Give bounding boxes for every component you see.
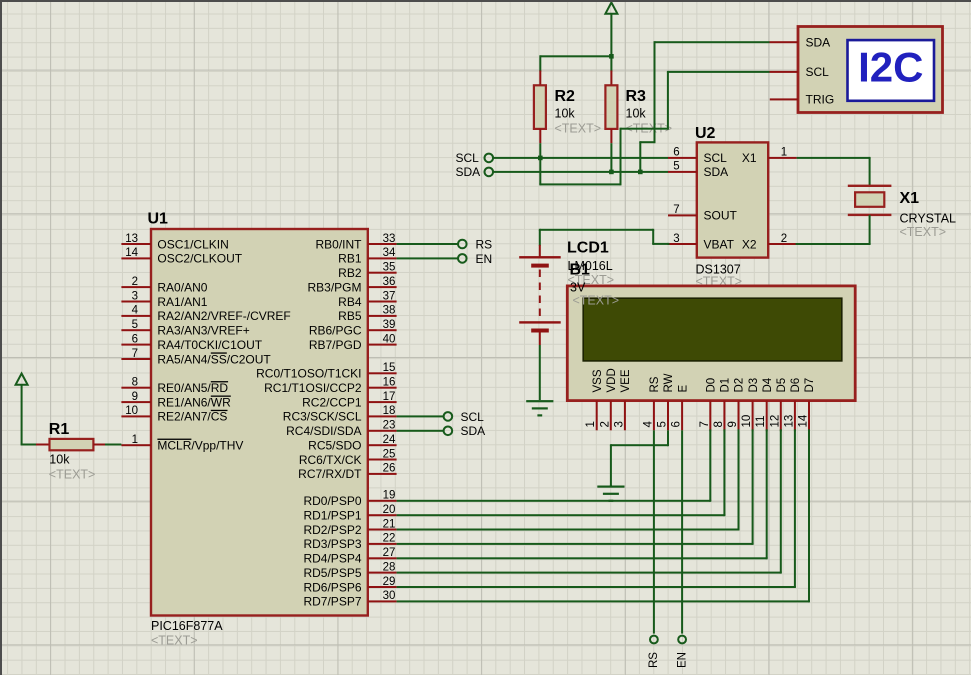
svg-text:RB1: RB1 [338, 252, 362, 266]
svg-text:25: 25 [383, 448, 396, 460]
terminal EN bottom [678, 636, 686, 644]
svg-text:R1: R1 [49, 421, 70, 438]
U1 pin 14 stub [121, 257, 151, 259]
terminal SCL mid [444, 412, 453, 421]
terminal RS [458, 240, 467, 249]
svg-text:<TEXT>: <TEXT> [573, 294, 620, 308]
svg-text:EN: EN [476, 252, 493, 266]
svg-text:RE0/AN5/RD: RE0/AN5/RD [157, 381, 228, 395]
battery B1 dashed link [539, 270, 541, 319]
U1 pin 21 stub [368, 529, 397, 531]
svg-text:RB0/INT: RB0/INT [315, 237, 362, 251]
svg-text:7: 7 [699, 421, 711, 427]
svg-text:3: 3 [613, 421, 625, 427]
U1 pin 33 stub [368, 243, 397, 245]
svg-text:13: 13 [125, 233, 138, 245]
svg-text:12: 12 [769, 415, 781, 428]
U1 pin 24 stub [368, 444, 397, 446]
LCD pin 10 stub [752, 401, 754, 431]
svg-text:SCL: SCL [704, 151, 728, 165]
svg-text:17: 17 [383, 391, 396, 403]
svg-text:RS: RS [476, 237, 493, 251]
svg-text:D1: D1 [720, 378, 732, 393]
battery B1 plate 2 short [531, 264, 549, 268]
svg-text:9: 9 [132, 391, 138, 403]
U1 pin 1 overbar [157, 439, 191, 440]
svg-text:LM016L: LM016L [568, 259, 613, 273]
I2C white display panel [848, 40, 935, 101]
svg-text:5: 5 [657, 421, 669, 427]
svg-text:X1: X1 [900, 190, 920, 207]
wire crystal to U2.X2 [869, 215, 871, 244]
svg-text:10k: 10k [555, 107, 576, 121]
svg-text:I2C: I2C [858, 44, 923, 91]
wire I2C SCL net [668, 71, 770, 73]
U1 pin 16 stub [368, 387, 397, 389]
svg-text:40: 40 [383, 333, 396, 345]
svg-text:PIC16F877A: PIC16F877A [151, 619, 223, 633]
svg-text:<TEXT>: <TEXT> [900, 225, 947, 239]
sheet border top [0, 0, 971, 2]
U1 pin 2 stub [121, 286, 151, 288]
U1 pin 19 stub [368, 500, 397, 502]
U1 pin 34 stub [368, 257, 397, 259]
svg-text:34: 34 [383, 247, 396, 259]
svg-text:10k: 10k [626, 107, 647, 121]
wire RD5 to LCD D5 [397, 572, 781, 574]
svg-text:14: 14 [798, 414, 810, 427]
svg-text:RA1/AN1: RA1/AN1 [157, 295, 207, 309]
U1 pin 38 stub [368, 315, 397, 317]
svg-text:1: 1 [585, 421, 597, 427]
U1 pin 20 stub [368, 514, 397, 516]
battery B1 plate 3 long [519, 321, 561, 323]
svg-text:X1: X1 [742, 151, 757, 165]
svg-text:4: 4 [132, 305, 139, 317]
wire SCL bus [493, 157, 668, 159]
svg-text:D5: D5 [776, 378, 788, 393]
svg-text:20: 20 [383, 504, 396, 516]
svg-text:RC4/SDI/SDA: RC4/SDI/SDA [286, 424, 361, 438]
wire RD2 to LCD D2 [397, 529, 739, 531]
svg-text:22: 22 [383, 533, 396, 545]
terminal SDA mid [444, 427, 453, 436]
wire arrow to R1 [21, 385, 23, 445]
wire battery to U2.VBAT [539, 230, 541, 246]
svg-text:RA2/AN2/VREF-/CVREF: RA2/AN2/VREF-/CVREF [157, 309, 290, 323]
U1 pin 22 stub [368, 543, 397, 545]
terminal SCL [485, 154, 494, 163]
svg-text:23: 23 [383, 420, 396, 432]
svg-text:D0: D0 [706, 378, 718, 393]
U2 pin 5 stub [668, 171, 697, 173]
crystal X1 top plate [848, 185, 892, 187]
U1 pin 8 stub [121, 387, 151, 389]
LCD pin 9 stub [738, 401, 740, 431]
svg-text:8: 8 [132, 377, 138, 389]
resistor R2 bottom pin [539, 129, 541, 143]
svg-text:6: 6 [132, 333, 138, 345]
wire R3 to SDA bus [610, 143, 612, 172]
resistor R3 body [605, 85, 617, 129]
resistor R2 body [534, 85, 546, 129]
svg-text:VEE: VEE [620, 369, 632, 392]
U1 pin 25 stub [368, 459, 397, 461]
svg-text:30: 30 [383, 590, 396, 602]
svg-text:7: 7 [673, 204, 679, 216]
svg-text:SDA: SDA [806, 36, 831, 50]
svg-text:2: 2 [599, 421, 611, 427]
U1 pin 17 stub [368, 401, 397, 403]
wire RD7 to LCD D7 [397, 600, 809, 602]
wire RD4 to LCD D4 [397, 557, 767, 559]
svg-text:16: 16 [383, 377, 396, 389]
svg-text:RB3/PGM: RB3/PGM [307, 280, 361, 294]
resistor R2 top pin [539, 71, 541, 86]
U1 pin 37 stub [368, 301, 397, 303]
resistor R3 bottom pin [610, 129, 612, 143]
LCD pin 7 stub [709, 401, 711, 431]
svg-text:<TEXT>: <TEXT> [555, 122, 602, 136]
svg-text:7: 7 [132, 348, 138, 360]
svg-text:RD4/PSP4: RD4/PSP4 [303, 552, 361, 566]
wire R2 to SCL bus [539, 143, 541, 158]
svg-text:RB7/PGD: RB7/PGD [309, 338, 362, 352]
svg-text:RB4: RB4 [338, 295, 362, 309]
U1 pin 28 stub [368, 572, 397, 574]
svg-text:SDA: SDA [456, 165, 481, 179]
terminal RS bottom [650, 636, 658, 644]
svg-text:6: 6 [671, 421, 683, 427]
ground under LCD.RW [597, 486, 624, 488]
wire RD3 to LCD D3 [397, 543, 753, 545]
svg-text:26: 26 [383, 463, 396, 475]
svg-text:RD0/PSP0: RD0/PSP0 [303, 494, 361, 508]
svg-text:18: 18 [383, 405, 396, 417]
svg-text:RA0/AN0: RA0/AN0 [157, 280, 207, 294]
U1 pin 35 stub [368, 272, 397, 274]
wire RC3 to SCL terminal [397, 415, 444, 417]
svg-text:35: 35 [383, 262, 396, 274]
wire power rail R2-R3 [540, 55, 611, 57]
power terminal (arrow) top [605, 3, 617, 14]
svg-text:D4: D4 [762, 377, 774, 392]
U1 pin 7 overbar [211, 352, 227, 353]
svg-text:<TEXT>: <TEXT> [49, 468, 96, 482]
wire RD6 to LCD D6 [397, 586, 795, 588]
svg-text:28: 28 [383, 561, 396, 573]
I2C pin TRIG stub [770, 98, 798, 100]
svg-text:24: 24 [383, 434, 396, 446]
U1 pin 29 stub [368, 586, 397, 588]
svg-text:U2: U2 [695, 125, 716, 142]
svg-text:RD1/PSP1: RD1/PSP1 [303, 509, 361, 523]
wire RB1 to EN terminal [397, 257, 458, 259]
svg-text:1: 1 [132, 434, 138, 446]
svg-text:33: 33 [383, 233, 396, 245]
svg-text:RB5: RB5 [338, 309, 362, 323]
svg-text:8: 8 [713, 421, 725, 427]
U1 pin 8 overbar [211, 381, 228, 382]
svg-text:10: 10 [125, 405, 138, 417]
svg-text:TRIG: TRIG [806, 93, 835, 107]
ground under battery [526, 400, 553, 402]
wire RB0 to RS terminal [397, 243, 458, 245]
LCD pin 2 stub [610, 401, 612, 431]
svg-text:RD5/PSP5: RD5/PSP5 [303, 566, 361, 580]
U1 pin 13 stub [121, 243, 151, 245]
U1 pin 9 overbar [211, 396, 231, 397]
svg-text:SCL: SCL [806, 65, 830, 79]
LCD pin 11 stub [766, 401, 768, 431]
svg-text:14: 14 [125, 247, 138, 259]
U1 pin 1 stub [121, 444, 151, 446]
svg-text:RD7/PSP7: RD7/PSP7 [303, 595, 361, 609]
U1 pin 10 overbar [211, 410, 228, 411]
svg-text:RC0/T1OSO/T1CKI: RC0/T1OSO/T1CKI [256, 367, 361, 381]
resistor R1 body [50, 439, 94, 450]
wire LCD.RS to RS terminal [653, 430, 655, 633]
svg-text:RD3/PSP3: RD3/PSP3 [303, 537, 361, 551]
svg-text:3V: 3V [570, 281, 586, 295]
crystal X1 bottom plate [848, 214, 892, 216]
svg-text:6: 6 [673, 147, 679, 159]
svg-text:11: 11 [755, 416, 767, 428]
U1 pin 5 stub [121, 329, 151, 331]
U1 pin 15 stub [368, 372, 397, 374]
wire RD0 to LCD D0 [397, 500, 711, 502]
power terminal (arrow) left [16, 374, 28, 385]
svg-text:E: E [677, 385, 689, 393]
wire LCD.RW to ground [667, 430, 669, 445]
U2 pin 1 stub [768, 157, 796, 159]
junction SCL bus / R2 [538, 156, 543, 161]
svg-text:1: 1 [781, 147, 787, 159]
LCD pin 4 stub [653, 401, 655, 431]
svg-text:2: 2 [132, 276, 138, 288]
LCD1 screen [583, 298, 842, 361]
svg-text:13: 13 [783, 415, 795, 428]
wire RD1 to LCD D1 [397, 514, 725, 516]
U1 pin 7 stub [121, 358, 151, 360]
svg-text:10k: 10k [49, 453, 70, 467]
U1 pin 36 stub [368, 286, 397, 288]
LCD pin 13 stub [794, 401, 796, 431]
LCD pin 8 stub [723, 401, 725, 431]
U1 pin 39 stub [368, 329, 397, 331]
svg-text:LCD1: LCD1 [567, 240, 609, 257]
svg-text:RA4/T0CKI/C1OUT: RA4/T0CKI/C1OUT [157, 338, 262, 352]
svg-text:U1: U1 [148, 211, 169, 228]
svg-text:RW: RW [663, 373, 675, 392]
svg-text:SCL: SCL [456, 151, 480, 165]
wire U2.X1 to crystal [797, 157, 870, 159]
wire rail down to R3 [610, 56, 612, 71]
LCD pin 14 stub [808, 401, 810, 431]
LCD1 body [567, 286, 855, 401]
svg-text:36: 36 [383, 276, 396, 288]
resistor R1 right pin [93, 444, 105, 446]
battery B1 plate 4 short [531, 329, 549, 333]
svg-text:VSS: VSS [592, 369, 604, 392]
IC U2 body [697, 142, 768, 257]
svg-text:X2: X2 [742, 237, 757, 251]
svg-text:29: 29 [383, 576, 396, 588]
U1 pin 9 stub [121, 401, 151, 403]
I2C pin SCL stub [770, 71, 799, 73]
svg-text:37: 37 [383, 290, 396, 302]
I2C pin SDA stub [770, 41, 799, 43]
U2 pin 3 stub [668, 243, 697, 245]
svg-text:21: 21 [383, 518, 396, 530]
svg-text:VBAT: VBAT [704, 237, 735, 251]
wire rail down to R2 [539, 55, 541, 71]
U2 pin 7 stub [668, 214, 697, 216]
U1 pin 10 stub [121, 415, 151, 417]
svg-text:CRYSTAL: CRYSTAL [900, 212, 957, 226]
svg-text:SDA: SDA [461, 424, 486, 438]
svg-text:RS: RS [649, 376, 661, 392]
svg-text:15: 15 [383, 362, 396, 374]
svg-text:RA5/AN4/SS/C2OUT: RA5/AN4/SS/C2OUT [157, 352, 271, 366]
svg-text:38: 38 [383, 305, 396, 317]
svg-text:D3: D3 [748, 378, 760, 393]
junction R3 / SDA bus [609, 170, 614, 175]
svg-text:D6: D6 [790, 378, 802, 393]
svg-text:5: 5 [673, 161, 679, 173]
svg-text:27: 27 [383, 547, 396, 559]
svg-text:<TEXT>: <TEXT> [151, 634, 198, 648]
svg-text:RE2/AN7/CS: RE2/AN7/CS [157, 410, 227, 424]
U1 pin 30 stub [368, 600, 397, 602]
U1 pin 3 stub [121, 301, 151, 303]
svg-text:RD6/PSP6: RD6/PSP6 [303, 580, 361, 594]
svg-text:2: 2 [781, 233, 787, 245]
U1 pin 6 stub [121, 344, 151, 346]
sheet border left [0, 0, 2, 675]
battery B1 bottom lead [539, 332, 541, 345]
svg-text:R3: R3 [626, 88, 647, 105]
terminal EN [458, 254, 467, 263]
svg-text:D7: D7 [804, 378, 816, 393]
svg-text:EN: EN [676, 652, 688, 668]
svg-text:RC5/SDO: RC5/SDO [308, 439, 361, 453]
LCD pin 6 stub [681, 401, 683, 431]
svg-text:SCL: SCL [461, 410, 485, 424]
U1 pin 18 stub [368, 415, 397, 417]
U1 pin 40 stub [368, 344, 397, 346]
I2C debugger body [798, 27, 943, 113]
svg-text:RA3/AN3/VREF+: RA3/AN3/VREF+ [157, 324, 249, 338]
battery B1 top lead [539, 245, 541, 257]
svg-text:RD2/PSP2: RD2/PSP2 [303, 523, 361, 537]
svg-text:9: 9 [727, 421, 739, 427]
svg-text:SDA: SDA [704, 165, 729, 179]
svg-text:3: 3 [673, 233, 679, 245]
svg-text:RB6/PGC: RB6/PGC [309, 324, 362, 338]
U1 pin 27 stub [368, 557, 397, 559]
junction SDA bus / I2C branch [638, 170, 643, 175]
svg-text:OSC1/CLKIN: OSC1/CLKIN [157, 237, 228, 251]
svg-text:VDD: VDD [606, 368, 618, 392]
svg-text:OSC2/CLKOUT: OSC2/CLKOUT [157, 252, 242, 266]
LCD pin 5 stub [667, 401, 669, 431]
LCD pin 12 stub [780, 401, 782, 431]
IC U1 body [151, 229, 368, 616]
wire battery to ground [539, 345, 541, 400]
wire I2C SDA net [655, 41, 770, 43]
svg-text:10: 10 [741, 415, 753, 428]
resistor R3 top pin [610, 71, 612, 86]
U1 pin 4 stub [121, 315, 151, 317]
svg-text:MCLR/Vpp/THV: MCLR/Vpp/THV [157, 439, 243, 453]
wire RC4 to SDA terminal [397, 430, 444, 432]
wire R1 to MCLR [105, 444, 121, 446]
resistor R1 left pin [36, 444, 50, 446]
svg-text:RB2: RB2 [338, 266, 362, 280]
LCD pin 3 stub [624, 401, 626, 431]
svg-text:RS: RS [648, 652, 660, 668]
svg-text:RC6/TX/CK: RC6/TX/CK [299, 453, 362, 467]
svg-text:5: 5 [132, 319, 138, 331]
svg-text:RC7/RX/DT: RC7/RX/DT [298, 467, 362, 481]
svg-text:4: 4 [642, 421, 654, 428]
LCD pin 1 stub [596, 401, 598, 431]
svg-text:SOUT: SOUT [704, 209, 738, 223]
svg-text:RC3/SCK/SCL: RC3/SCK/SCL [283, 410, 362, 424]
U2 pin 6 stub [668, 157, 697, 159]
junction power rail / R3 [609, 54, 614, 59]
U1 pin 23 stub [368, 430, 397, 432]
U2 pin 2 stub [768, 243, 796, 245]
svg-text:RE1/AN6/WR: RE1/AN6/WR [157, 395, 231, 409]
wire power arrow to rail [610, 14, 612, 57]
battery B1 plate 1 long [519, 256, 561, 258]
crystal X1 body [855, 192, 884, 207]
terminal SDA [485, 168, 494, 177]
wire SDA bus [493, 171, 668, 173]
svg-text:39: 39 [383, 319, 396, 331]
U1 pin 26 stub [368, 473, 397, 475]
wire LCD.E to EN terminal [681, 430, 683, 633]
svg-text:19: 19 [383, 490, 396, 502]
svg-text:RC1/T1OSI/CCP2: RC1/T1OSI/CCP2 [264, 381, 362, 395]
svg-text:3: 3 [132, 290, 138, 302]
svg-text:RC2/CCP1: RC2/CCP1 [302, 395, 362, 409]
svg-text:R2: R2 [555, 88, 576, 105]
svg-text:D2: D2 [734, 378, 746, 393]
